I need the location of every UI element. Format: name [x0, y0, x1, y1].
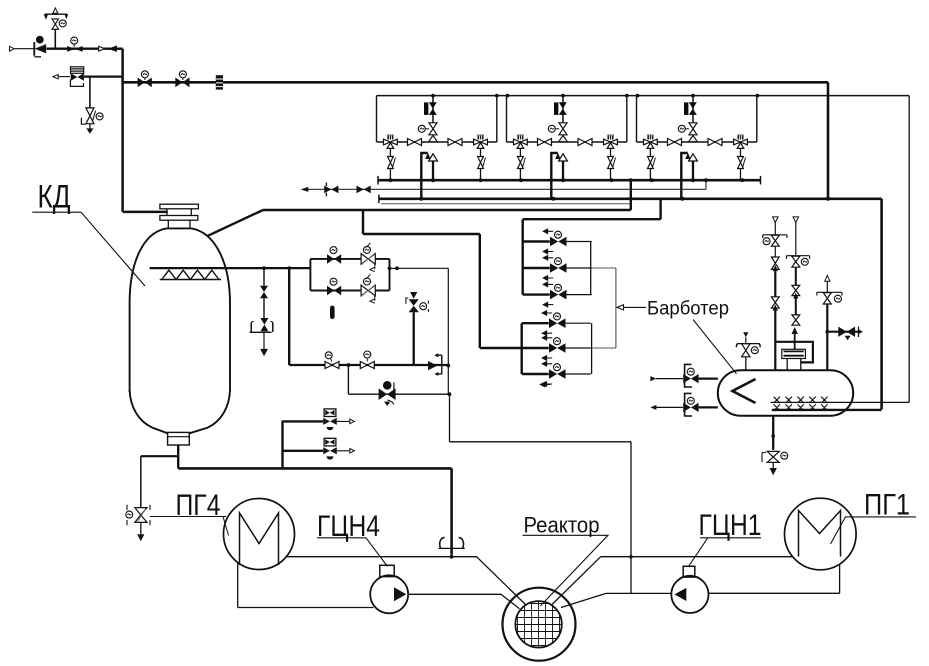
svg-text:ГЦН1: ГЦН1 — [699, 509, 762, 542]
svg-text:Барботер: Барботер — [647, 299, 729, 320]
svg-text:Реактор: Реактор — [524, 513, 600, 538]
svg-text:КД: КД — [38, 179, 71, 215]
